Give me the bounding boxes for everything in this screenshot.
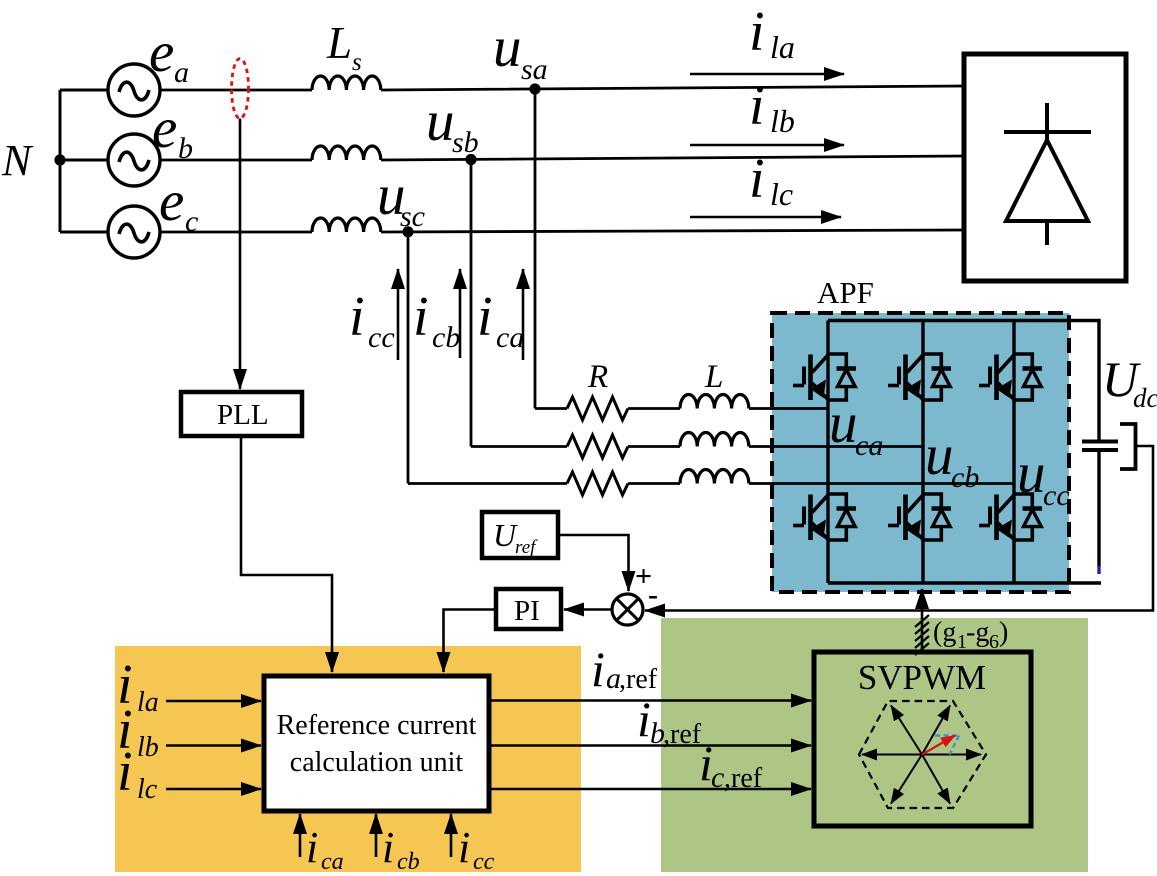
svg-text:sa: sa (521, 53, 548, 86)
svg-text:lc: lc (770, 176, 793, 212)
svg-text:-g: -g (966, 617, 989, 648)
svg-text:calculation unit: calculation unit (290, 747, 464, 778)
svg-text:cb: cb (397, 849, 420, 875)
svg-text:): ) (999, 617, 1008, 648)
svg-text:lb: lb (770, 103, 795, 139)
svg-text:c: c (185, 205, 198, 238)
svg-text:N: N (1, 136, 34, 185)
svg-text:ca: ca (855, 429, 883, 462)
svg-text:i: i (413, 286, 429, 348)
svg-text:i: i (637, 691, 651, 747)
svg-text:Reference current: Reference current (277, 710, 477, 741)
svg-text:i: i (749, 148, 765, 210)
svg-text:L: L (326, 18, 352, 68)
svg-text:,ref: ,ref (724, 763, 763, 794)
svg-text:i: i (349, 286, 365, 348)
svg-text:i: i (749, 75, 765, 137)
svg-text:la: la (137, 687, 159, 718)
svg-text:(g: (g (933, 617, 956, 648)
svg-text:cc: cc (1043, 479, 1070, 512)
svg-text:cc: cc (368, 321, 395, 354)
svg-text:SVPWM: SVPWM (858, 658, 986, 697)
svg-text:i: i (477, 286, 493, 348)
svg-text:u: u (925, 424, 954, 487)
svg-text:ref: ref (515, 537, 538, 558)
svg-text:cc: cc (473, 849, 495, 875)
svg-text:cb: cb (951, 461, 979, 494)
svg-text:-: - (648, 578, 658, 611)
svg-text:L: L (704, 359, 723, 395)
svg-text:sc: sc (400, 200, 425, 233)
svg-text:R: R (587, 359, 608, 395)
svg-text:cb: cb (432, 321, 460, 354)
svg-text:i: i (382, 823, 394, 872)
svg-text:c: c (711, 761, 724, 794)
svg-text:i: i (117, 741, 133, 803)
svg-text:lc: lc (137, 774, 158, 805)
svg-text:s: s (352, 49, 362, 76)
svg-text:ca: ca (496, 321, 524, 354)
svg-text:u: u (493, 16, 522, 79)
svg-text:dc: dc (1133, 383, 1157, 413)
svg-text:PLL: PLL (217, 399, 269, 431)
svg-text:6: 6 (989, 631, 999, 653)
svg-text:u: u (426, 90, 455, 153)
svg-text:a: a (174, 56, 189, 89)
svg-text:i: i (749, 1, 765, 63)
svg-text:b: b (178, 132, 193, 165)
svg-text:la: la (770, 29, 795, 65)
svg-text:i: i (306, 823, 318, 872)
svg-text:u: u (1017, 442, 1046, 505)
svg-text:PI: PI (514, 595, 540, 627)
svg-text:e: e (149, 21, 174, 84)
svg-text:u: u (829, 392, 858, 455)
svg-text:lb: lb (137, 732, 159, 763)
svg-text:i: i (458, 823, 470, 872)
svg-text:e: e (152, 97, 177, 160)
svg-text:i: i (591, 641, 605, 697)
svg-text:,ref: ,ref (663, 719, 702, 750)
svg-text:APF: APF (817, 275, 874, 310)
svg-text:e: e (159, 170, 184, 233)
svg-text:sb: sb (452, 126, 479, 159)
svg-text:ca: ca (321, 849, 344, 875)
